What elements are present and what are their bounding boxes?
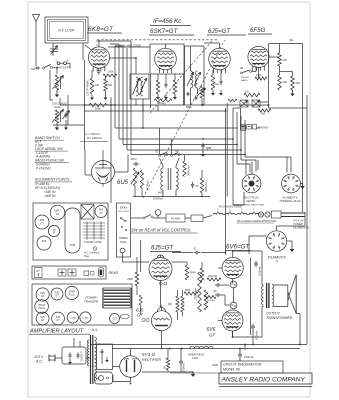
wire right bundle verticals [232, 108, 234, 205]
fuse block filament [272, 211, 282, 218]
svg-text:SW on REAR of VOL CONTROL: SW on REAR of VOL CONTROL [131, 228, 191, 233]
svg-text:500Ka: 500Ka [120, 207, 128, 210]
svg-text:=600 Kc: =600 Kc [44, 194, 56, 198]
svg-text:250K: 250K [127, 278, 133, 281]
coupling cap input [194, 252, 196, 254]
tone switch shaft [120, 248, 125, 253]
capacitor gnd mid [202, 143, 204, 146]
pot arrows left [133, 168, 136, 186]
volume control pot [200, 86, 204, 98]
svg-text:GT: GT [99, 212, 103, 215]
tone control box [117, 203, 131, 257]
wire V8 plate top [160, 281, 162, 307]
svg-text:CA: CA [245, 90, 249, 94]
svg-text:100Kohm: 100Kohm [205, 182, 208, 193]
svg-text:VOL CONT: VOL CONT [118, 211, 130, 213]
svg-text:6SK7: 6SK7 [54, 209, 61, 213]
svg-text:PLUG: PLUG [69, 295, 75, 297]
svg-text:30K: 30K [168, 303, 173, 306]
resistor V8 cathode [185, 265, 189, 280]
svg-text:#-5: #-5 [92, 328, 97, 332]
svg-text:300Kohm: 300Kohm [188, 165, 191, 176]
speaker field coil [190, 346, 213, 348]
interlock box [166, 214, 185, 222]
wire grid cap diagonal V1 [85, 45, 92, 51]
title box model [221, 361, 283, 373]
wire grid bias V6V7 [218, 267, 222, 269]
V3 bias components [211, 75, 215, 90]
tube V4 6F5G [248, 46, 269, 67]
svg-text:BC/Rout: BC/Rout [147, 180, 150, 190]
svg-text:ANT CA PO: ANT CA PO [57, 66, 71, 70]
amp layout 5Y3 socket [110, 314, 120, 324]
svg-text:500: 500 [261, 113, 266, 116]
loop box L1 [45, 17, 88, 43]
amp layout socket 6J5 b [52, 312, 65, 325]
wire phono feed [240, 108, 242, 126]
wire left verticals from IF stage [114, 46, 116, 128]
grid connector upper [230, 281, 237, 288]
resistor 50K divider [291, 76, 295, 90]
wire osc section frame [67, 95, 69, 125]
filter cap 3 [239, 352, 241, 354]
svg-text:B+: B+ [290, 38, 294, 42]
svg-text:115 V: 115 V [34, 355, 44, 359]
power transformer T10 core [90, 335, 92, 384]
interstage transformer T4 [161, 168, 163, 190]
svg-text:GT: GT [56, 212, 60, 216]
wire interstage bottom bus [133, 196, 210, 198]
resistor 100Kohm [200, 178, 203, 193]
pilot lamp [155, 210, 161, 216]
layout grommet [93, 247, 97, 251]
svg-text:B = 200ohm: B = 200ohm [87, 136, 103, 140]
wire 6U5 top to bus [102, 150, 104, 161]
ground socket S2 [301, 183, 303, 185]
cap 100mfd at title [244, 345, 246, 351]
wire right bus outer [306, 95, 308, 344]
svg-text:O2: O2 [155, 150, 159, 154]
filter resistor [166, 358, 169, 370]
wire mid vertical pair [226, 103, 228, 197]
amp layout cond b [80, 312, 91, 323]
cap .05 inter [192, 182, 194, 185]
svg-text:6SK7=GT: 6SK7=GT [150, 28, 179, 35]
svg-text:COIL: COIL [54, 105, 61, 109]
svg-text:6U5: 6U5 [42, 239, 47, 243]
AC plug [48, 355, 50, 362]
resistor 6F5G bias [244, 93, 260, 97]
svg-text:PILOT PLUG: PILOT PLUG [243, 196, 258, 200]
ground osc coil [56, 123, 58, 126]
svg-text:100mfd: 100mfd [182, 363, 186, 372]
svg-text:RUB: RUB [70, 244, 75, 247]
amp layout socket 6V6 a [36, 288, 49, 301]
svg-text:1meg: 1meg [190, 271, 197, 274]
wire bus y128 [115, 127, 238, 129]
trimmer capacitor antenna [50, 48, 58, 50]
shield box legs [150, 74, 152, 108]
tube V10 5Y3G [120, 356, 142, 378]
svg-text:GT: GT [209, 333, 215, 338]
ground V1 cathode [91, 95, 93, 98]
svg-text:GT: GT [56, 319, 60, 322]
socket S3 filament X [266, 231, 286, 251]
trimmers T3 [187, 92, 189, 94]
svg-text:800K: 800K [186, 106, 192, 109]
wire socket S3 left [249, 235, 266, 237]
wire top rail tube1-tube2 [108, 46, 150, 48]
tube V9 phase inverter [152, 311, 172, 331]
resistor 25ohm 2W [207, 278, 221, 281]
primary box [62, 347, 86, 364]
wire bus y111 [85, 110, 227, 112]
phono connector mid [241, 126, 246, 131]
line cord block [191, 215, 203, 222]
layout tuning condenser [83, 222, 105, 224]
wire phono row [260, 101, 269, 103]
resistor V8 grid [135, 272, 139, 286]
svg-text:RECTIFIER: RECTIFIER [142, 358, 161, 362]
ground divider [292, 90, 294, 92]
svg-text:PHONO: PHONO [258, 126, 269, 130]
svg-text:100K: 100K [256, 74, 262, 77]
wire vertical x250 [250, 258, 252, 335]
layout IF box with X [81, 205, 94, 220]
svg-text:100mfd: 100mfd [244, 355, 254, 359]
socket S1 wires [245, 160, 247, 175]
svg-text:100mfd: 100mfd [255, 330, 259, 340]
layout tube 6F5 [95, 206, 107, 218]
svg-text:5Y3: 5Y3 [112, 318, 117, 321]
wire plate V7 [232, 331, 234, 337]
wire T2 secondary down [142, 99, 144, 128]
svg-text:BASS: BASS [120, 241, 127, 244]
svg-text:IF=456 Kc: IF=456 Kc [153, 18, 182, 25]
svg-text:P-PHONO: P-PHONO [36, 167, 51, 171]
svg-text:500K: 500K [185, 289, 191, 292]
wire to osc coil [49, 70, 51, 100]
svg-text:500K: 500K [95, 107, 101, 111]
wire tone to grid [122, 257, 124, 262]
amp layout spkr plug [65, 286, 78, 299]
resistor 300K [183, 161, 186, 177]
dial lamps [258, 212, 263, 217]
ant terminal strip [35, 268, 43, 278]
svg-text:100K: 100K [212, 363, 218, 367]
svg-text:A: A [66, 59, 68, 63]
resistor screen [278, 75, 282, 90]
svg-text:DETAIL: DETAIL [247, 199, 256, 203]
wire tube3 grid top [190, 46, 192, 71]
svg-text:100mfd: 100mfd [258, 266, 262, 276]
coupling circles V8 [159, 282, 162, 285]
svg-text:AMPLIFIER LAYOUT: AMPLIFIER LAYOUT [29, 329, 84, 335]
wire speaker down [299, 314, 301, 345]
ground filter [192, 371, 194, 374]
wire T2 primary [135, 58, 137, 74]
wire socket S3 top [276, 226, 278, 231]
V2 cathode components [156, 80, 160, 94]
svg-text:TREBLE: TREBLE [119, 238, 128, 240]
amp layout cond a [67, 312, 78, 323]
svg-text:COIL: COIL [192, 356, 199, 360]
wire mid vertical x225.5 [225, 108, 227, 255]
wire T3 secondary down [190, 88, 192, 105]
title underline [219, 386, 312, 388]
cap 100mfd upper [255, 261, 257, 263]
output transformer T11 [262, 286, 264, 305]
coupling caps to PP grids [215, 284, 217, 286]
resistor phase splitter load [198, 272, 202, 312]
wires 6F5G plate circuit [269, 56, 279, 58]
svg-text:6F5G: 6F5G [250, 27, 266, 34]
svg-text:6U5: 6U5 [117, 180, 129, 186]
svg-text:TRANSFR: TRANSFR [84, 300, 99, 304]
svg-text:GN/Rout: GN/Rout [153, 198, 163, 201]
wire tube2 plate to T3 [165, 44, 167, 48]
amp layout cap oval [120, 314, 129, 318]
rear apron box [32, 266, 106, 279]
svg-text:50K: 50K [108, 84, 113, 87]
IF transformer T2 [130, 74, 149, 99]
switch O6 [170, 154, 172, 156]
svg-text:6J5=GT: 6J5=GT [208, 28, 231, 35]
svg-text:.05mf: .05mf [130, 157, 137, 161]
resistor V1 screen vertical [104, 79, 108, 91]
svg-text:6V6=GT: 6V6=GT [226, 244, 250, 251]
svg-text:25Ω 2W: 25Ω 2W [208, 275, 218, 278]
wire rectifier top [130, 349, 132, 356]
bottom bus wires [112, 348, 300, 350]
IF transformer T3 [184, 46, 186, 105]
svg-text:PHONO: PHONO [241, 77, 249, 79]
layout tube 6K8 [35, 215, 49, 229]
svg-text:RADIO: RADIO [241, 79, 248, 82]
secondary box [97, 344, 113, 370]
svg-text:CIRCUIT DIAGRAM FOR: CIRCUIT DIAGRAM FOR [223, 363, 262, 367]
svg-text:ANT: ANT [36, 270, 41, 273]
wire vertical to tone control [110, 97, 112, 203]
resistor grid 6F5G [255, 77, 267, 80]
filament pin stubs [217, 211, 219, 214]
resistor plate 30K [278, 53, 282, 66]
svg-text:GT: GT [40, 222, 44, 226]
svg-text:GT: GT [137, 313, 143, 318]
svg-text:OZ: OZ [31, 67, 35, 71]
svg-text:.01: .01 [193, 248, 197, 251]
extra verticals mid [142, 105, 144, 111]
svg-text:15K: 15K [283, 80, 288, 84]
chassis layout box [33, 203, 108, 260]
svg-text:FILAMENT &: FILAMENT & [282, 196, 298, 200]
resistor 240meg tube2 [154, 99, 172, 102]
svg-text:GT: GT [41, 295, 45, 298]
ground socket S3 [287, 240, 292, 242]
wire B+ rail right [302, 44, 304, 213]
svg-text:.05: .05 [213, 290, 217, 293]
power transformer block [103, 288, 131, 308]
svg-text:GT: GT [41, 319, 45, 322]
socket S2 rear view [282, 174, 301, 193]
padder capacitor [65, 112, 67, 115]
wire bus y150 [127, 149, 241, 151]
wire switch stubs up [159, 128, 161, 155]
svg-text:6K8: 6K8 [40, 218, 45, 222]
wire B+ feed y108 [269, 107, 308, 109]
svg-text:1meg: 1meg [213, 83, 220, 86]
svg-text:TRANSFORMER: TRANSFORMER [266, 316, 293, 320]
wire loop box to tuning cap [52, 43, 54, 56]
layout IF can [48, 225, 59, 236]
svg-text:6J5=GT: 6J5=GT [151, 245, 174, 252]
svg-text:4.7K 100K: 4.7K 100K [205, 300, 216, 302]
svg-text:1ST IF 456KC: 1ST IF 456KC [86, 79, 90, 96]
capacitor V1 cathode [98, 68, 100, 71]
filament string [213, 213, 223, 215]
resistor row y297 [204, 296, 216, 299]
terminal A [64, 62, 67, 65]
resistor splitter lower [204, 290, 208, 310]
ground aerial coil [56, 90, 58, 93]
svg-text:gnd: gnd [206, 146, 212, 150]
layout dial capsule [65, 208, 80, 253]
svg-text:30K: 30K [283, 58, 288, 62]
svg-text:O6: O6 [175, 149, 179, 153]
wire tube1 plate to T2 top [130, 41, 132, 74]
cap lower left [252, 324, 254, 326]
svg-text:COND: COND [70, 318, 77, 320]
rectifier filament box [95, 372, 113, 384]
amp layout rcvr plug [35, 300, 49, 314]
filament cable to tuner [281, 212, 305, 214]
svg-text:TUNING COND: TUNING COND [84, 241, 102, 244]
svg-text:PLUG: PLUG [38, 307, 45, 310]
wire rectifier cathode down-left [113, 375, 131, 382]
svg-text:SPKR: SPKR [69, 291, 76, 293]
wire bus y144 [123, 144, 237, 146]
resistor 500K AVC [89, 103, 107, 107]
grid connector lower [230, 302, 237, 309]
row y293 res [184, 292, 198, 295]
svg-text:50K: 50K [296, 81, 301, 85]
wire rect to transformer [113, 366, 120, 368]
aerial coil L2 [55, 75, 58, 90]
T10 primary winding [88, 340, 89, 366]
variable cap section A [240, 100, 248, 107]
phono jack [241, 125, 246, 130]
junction dots [98, 40, 100, 42]
svg-text:6V AMP: 6V AMP [171, 218, 180, 221]
phono sockets rear [58, 269, 66, 276]
title box company [219, 373, 312, 384]
resistor small y100 [228, 99, 237, 102]
resistor V8 plate load [200, 268, 204, 282]
svg-text:400: 400 [158, 191, 163, 195]
tube V8 6J5 driver [149, 258, 172, 281]
svg-text:CONNECTIONS WHEN USED: CONNECTIONS WHEN USED [234, 205, 265, 207]
variable cap section B [252, 100, 260, 107]
layout tube 6SK7 [50, 205, 65, 220]
svg-text:SW on REAR of RADIO-PHONO DIAL: SW on REAR of RADIO-PHONO DIAL [237, 220, 277, 223]
wire plate V6 [232, 251, 234, 257]
resistor V1 screen horizontal [103, 74, 117, 77]
tube V7 6V6 lower [222, 310, 243, 331]
antenna [33, 15, 40, 22]
filter cap 2 [180, 359, 182, 361]
svg-text:20K: 20K [95, 84, 100, 87]
tube V1 6K8-GT [88, 47, 109, 68]
gang dashed line 2 [150, 40, 213, 113]
tube V5 6U5 tuning eye [92, 161, 115, 184]
wire filter bottom [142, 371, 193, 373]
T10 secondary winding [95, 337, 97, 381]
svg-text:A.C.: A.C. [35, 360, 43, 364]
tube V3 6J5-GT [209, 48, 231, 70]
wire plates to transformer [261, 251, 263, 285]
wire plug to box [86, 357, 91, 359]
svg-text:100K: 100K [108, 72, 114, 74]
svg-text:GT: GT [55, 295, 59, 298]
amp layout socket 6J5 [51, 288, 63, 300]
power cord exit [99, 268, 104, 278]
svg-text:R.F. LOOP: R.F. LOOP [58, 29, 75, 33]
grid components V1 [90, 78, 94, 94]
wire bus y154 [131, 154, 245, 156]
wire tube4 grid [252, 71, 257, 73]
wire AVC bus [60, 104, 268, 106]
svg-text:6K8=GT: 6K8=GT [88, 26, 114, 33]
wire plate V1 [98, 41, 100, 47]
amp layout socket 6V6 b [36, 312, 49, 325]
svg-text:5K: 5K [164, 366, 167, 369]
svg-text:COND: COND [82, 318, 89, 320]
wire 6U5 left [84, 150, 86, 175]
svg-text:ANSLEY RADIO COMPANY: ANSLEY RADIO COMPANY [221, 377, 306, 384]
svg-text:1M: 1M [240, 66, 244, 70]
wire bundle to socket jogs [237, 164, 250, 173]
tube V2 6SK7-GT [155, 48, 177, 70]
switch O2 [158, 154, 160, 156]
resistors inverter plate [176, 296, 179, 312]
terminal L [57, 62, 60, 65]
svg-text:SWITCH: SWITCH [81, 351, 84, 361]
svg-text:TONE/DIAL PLUG: TONE/DIAL PLUG [279, 199, 300, 203]
gang dashed line 1 [143, 40, 225, 198]
shield box V2 [150, 44, 184, 74]
gang dashed horizontal [97, 39, 218, 41]
amplifier chassis box [32, 284, 132, 325]
speaker cone [289, 275, 296, 314]
svg-text:Plug: Plug [84, 255, 90, 258]
svg-text:REAR: REAR [109, 271, 119, 275]
layout tube 6U5 [37, 236, 51, 250]
svg-text:5Y3-G: 5Y3-G [142, 352, 156, 357]
fuse rear [84, 271, 89, 276]
tube V6 6V6 upper [222, 257, 243, 278]
svg-text:MODEL #6: MODEL #6 [223, 368, 240, 372]
power switch [131, 217, 144, 219]
wire primary feed up [73, 338, 75, 347]
socket S1 rear view [242, 174, 261, 193]
wire x140 down [140, 240, 142, 272]
wire 6U5 right [115, 171, 129, 173]
wire bus y139 [119, 138, 233, 140]
resistor 500 ohm [258, 109, 271, 112]
